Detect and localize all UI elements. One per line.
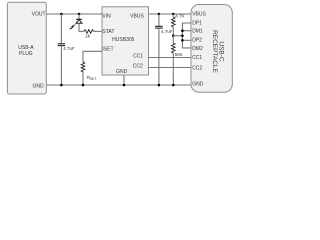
- svg-text:RSET: RSET: [87, 75, 97, 81]
- svg-text:CC2: CC2: [133, 63, 143, 69]
- svg-text:DP1: DP1: [192, 21, 202, 27]
- wire cap1 to gnd rail: [60, 46, 62, 85]
- wire VOUT rail to VIN: [46, 13, 102, 15]
- node junction cap2 gnd: [158, 84, 161, 87]
- capacitor C2 4.7uF: [155, 26, 163, 28]
- wire tap to DP/DM bus: [173, 35, 182, 37]
- connector J1 USB-A PLUG box: [7, 2, 46, 94]
- resistor R4 56K: [172, 36, 183, 85]
- wire cap1 branch: [60, 14, 62, 44]
- node junction DM1: [181, 29, 184, 32]
- svg-text:VBUS: VBUS: [192, 11, 206, 17]
- wire DM1 stub: [182, 30, 191, 32]
- node junction R divider tap: [172, 34, 175, 37]
- svg-text:DP2: DP2: [192, 38, 202, 44]
- wire GND rail: [46, 84, 191, 86]
- resistor R1 2k: [79, 30, 102, 39]
- svg-text:DM1: DM1: [192, 28, 203, 34]
- wire CC1: [149, 57, 192, 59]
- wire cap2 branch: [158, 14, 160, 26]
- node junction divider tap on bus: [181, 34, 184, 37]
- svg-text:PLUG: PLUG: [19, 51, 33, 57]
- svg-text:CC1: CC1: [133, 53, 143, 59]
- svg-text:VOUT: VOUT: [32, 12, 46, 18]
- svg-text:ISET: ISET: [102, 47, 113, 53]
- node junction cap1 on VOUT rail: [60, 13, 63, 16]
- svg-text:STAT: STAT: [102, 29, 114, 35]
- svg-text:4.7K: 4.7K: [175, 14, 184, 19]
- wire CC2: [149, 67, 192, 69]
- svg-text:HUSB305: HUSB305: [112, 37, 134, 43]
- wire ISET to RSET: [83, 51, 102, 62]
- svg-text:56K: 56K: [175, 52, 183, 57]
- svg-text:GND: GND: [32, 84, 44, 90]
- node junction RSET gnd: [82, 84, 85, 87]
- svg-text:DM2: DM2: [192, 46, 203, 52]
- capacitor C1 4.7uF: [58, 44, 65, 46]
- node junction 56K gnd: [172, 84, 175, 87]
- svg-text:VBUS: VBUS: [130, 13, 144, 19]
- svg-text:RECEPTACLE: RECEPTACLE: [211, 30, 218, 74]
- svg-text:GND: GND: [116, 69, 128, 75]
- svg-text:GND: GND: [192, 81, 204, 87]
- LED arrow 1: [71, 24, 75, 27]
- node junction cap2 on VBUS rail: [158, 13, 161, 16]
- svg-text:4.7uF: 4.7uF: [63, 46, 75, 51]
- LED arrow 2: [69, 27, 73, 30]
- svg-text:USB-A: USB-A: [18, 45, 34, 51]
- wire IC GND pin down: [123, 75, 125, 85]
- wire DP2 stub: [182, 39, 191, 41]
- LED D1: [69, 14, 82, 31]
- wire DP/DM bus vertical: [182, 23, 191, 48]
- svg-text:VIN: VIN: [102, 13, 111, 19]
- node junction IC gnd: [123, 84, 126, 87]
- wire cap2 to gnd rail: [158, 28, 160, 85]
- resistor R3 4.7K: [172, 14, 185, 36]
- node junction R 4.7K on VBUS rail: [172, 13, 175, 16]
- resistor R2 RSET: [81, 62, 96, 85]
- IC U1 HUSB305 box: [102, 7, 149, 75]
- svg-text:4.7uF: 4.7uF: [161, 29, 173, 34]
- svg-text:CC1: CC1: [192, 55, 202, 61]
- node junction LED on VOUT rail: [78, 13, 81, 16]
- node junction DP2: [181, 39, 184, 42]
- svg-text:2k: 2k: [85, 34, 91, 39]
- connector J2 USB-C RECEPTACLE box: [191, 5, 232, 93]
- svg-text:CC2: CC2: [192, 66, 202, 72]
- node junction cap1 gnd: [60, 84, 63, 87]
- wire VBUS rail IC to receptacle: [149, 13, 192, 15]
